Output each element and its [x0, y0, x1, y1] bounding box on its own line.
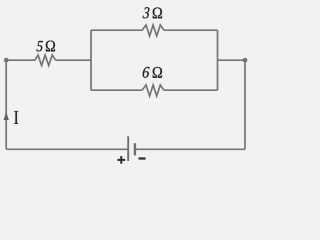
label value 5 of R1: [36, 41, 43, 51]
wire: top branch left segment to resistor R2: [91, 29, 142, 31]
wire: bottom horizontal, right of battery: [135, 148, 245, 150]
battery V1 positive plate (long): [127, 136, 129, 161]
wire: mid-left horizontal from node A to resistor R1: [6, 59, 35, 61]
wire: bottom horizontal, left of battery: [6, 148, 127, 150]
label I (current): [14, 111, 18, 124]
battery minus sign: [139, 157, 146, 159]
label unit ohm of R3: [153, 67, 162, 78]
wire: top branch right segment from R2: [164, 29, 218, 31]
label value 6 of R3: [143, 67, 150, 78]
wire: bottom branch left segment to resistor R3: [91, 89, 142, 91]
wire: parallel box left edge vertical: [90, 30, 92, 90]
node B junction dot: [243, 58, 248, 63]
wire: left vertical from node A down to bottom-left corner: [5, 60, 7, 149]
wire: parallel box right edge vertical: [217, 30, 219, 90]
current arrow head on left wire: [4, 112, 9, 120]
label unit ohm of R1: [46, 41, 55, 52]
resistor R1 (5 ohm) zigzag: [35, 55, 56, 66]
label unit ohm of R2: [153, 8, 162, 19]
wire: right vertical from node B down to bottom-right corner: [244, 60, 246, 149]
node A junction dot: [4, 58, 9, 63]
resistor R2 (3 ohm) zigzag: [142, 25, 164, 36]
wire: from R1 to parallel box left edge: [56, 59, 91, 61]
wire: bottom branch right segment from R3: [164, 89, 218, 91]
label value 3 of R2: [143, 7, 150, 18]
battery plus sign: [117, 156, 125, 164]
resistor R3 (6 ohm) zigzag: [142, 85, 164, 96]
wire: mid-right horizontal from box to node B: [218, 59, 246, 61]
battery V1 negative plate (short): [134, 143, 136, 155]
